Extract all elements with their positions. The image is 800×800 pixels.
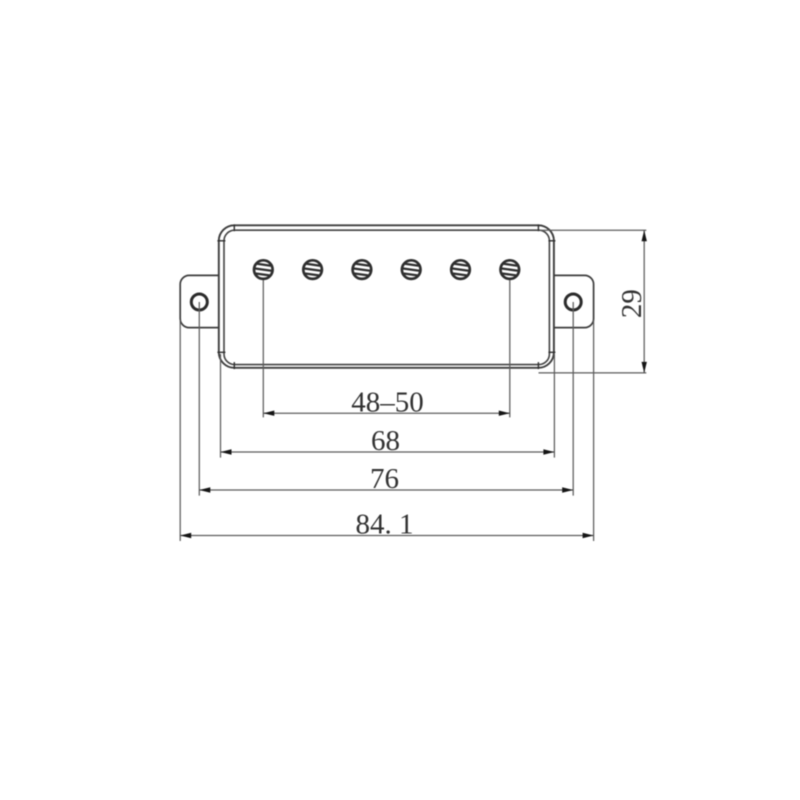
dimension line 84.1 [180,535,593,537]
svg-text:48–50: 48–50 [351,386,424,418]
dimension line 29 vertical [643,230,645,373]
arrowhead 29 bottom [642,362,647,373]
extension line 29 bottom [539,372,647,374]
arrowhead 68 right [543,449,554,454]
dimension line 68 [221,451,555,453]
pole piece P5 [451,260,470,279]
left mounting tab outline [180,275,219,327]
extension line left hole center [198,302,200,496]
corner tick bottom-right vertical [537,362,539,369]
arrowhead 48-50 left [263,411,274,416]
left tab screw hole [191,294,207,310]
corner tick top-right horizontal [548,240,555,242]
extension line pole P6 center [509,280,511,417]
corner tick top-left vertical [233,224,235,231]
pole piece P1 [254,260,273,279]
arrowhead 84.1 right [583,533,594,538]
right tab screw hole [565,294,581,310]
arrowhead 84.1 left [180,533,191,538]
extension line right hole center [572,302,574,496]
arrowhead 76 right [562,487,573,492]
arrowhead 48-50 right [499,411,510,416]
corner tick top-left horizontal [217,240,225,242]
pole piece P3 [352,260,371,279]
pole piece P2 [303,260,322,279]
pole piece P6 [500,260,519,279]
extension line left tab outer edge [179,320,181,541]
pole piece P4 [402,260,421,279]
dimension line 48-50 [263,412,510,414]
extension line body left edge [220,354,222,458]
arrowhead 76 left [199,487,210,492]
svg-text:68: 68 [371,425,400,457]
dimension line 76 [199,489,573,491]
right mounting tab outline [554,275,594,327]
extension line right tab outer edge [593,320,595,541]
extension line body right edge [553,354,555,458]
svg-text:29: 29 [616,289,648,318]
pickup body outer outline [219,225,554,367]
pickup body inner outline [224,230,549,364]
extension line 29 top [540,229,646,231]
corner tick bottom-right horizontal [548,351,555,353]
corner tick bottom-left vertical [233,362,235,369]
arrowhead 29 top [642,230,647,241]
corner tick top-right vertical [537,224,539,231]
corner tick bottom-left horizontal [217,351,225,353]
arrowhead 68 left [221,449,232,454]
svg-text:76: 76 [370,463,399,495]
svg-text:84. 1: 84. 1 [356,509,414,541]
extension line pole P1 center [262,280,264,417]
